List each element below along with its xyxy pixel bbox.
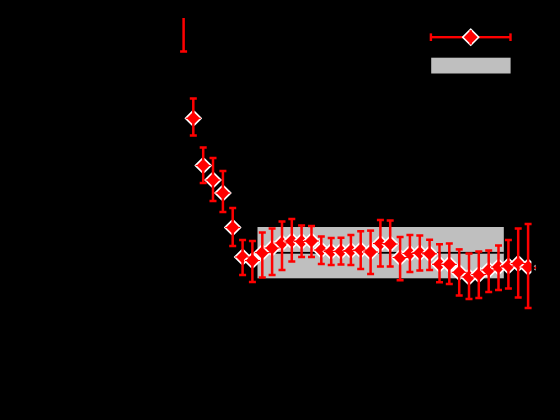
xerr segments	[186, 118, 536, 277]
errorbar t=11	[288, 219, 295, 262]
marker t=26	[431, 256, 448, 273]
errorbar t=10	[279, 222, 286, 271]
errorbar t=19	[367, 231, 374, 274]
errorbar t=31	[485, 251, 492, 293]
errorbar t=28	[456, 249, 463, 295]
marker t=32	[490, 259, 507, 276]
errorbar t=16	[338, 238, 345, 265]
errorbar t=9	[269, 229, 276, 276]
errorbar t=1	[190, 99, 197, 136]
marker t=34	[510, 255, 527, 272]
marker t=18	[352, 242, 369, 259]
errorbar series	[180, 18, 531, 308]
marker t=2	[195, 157, 212, 174]
marker t=16	[333, 243, 350, 260]
errorbar t=20	[377, 220, 384, 267]
errorbar t=22	[397, 237, 404, 280]
legend band swatch	[431, 58, 510, 74]
legend errorbar sample	[431, 33, 511, 41]
errorbar t=18	[357, 231, 364, 269]
errorbar t=8	[259, 233, 266, 278]
marker t=9	[264, 240, 281, 257]
marker t=14	[313, 242, 330, 259]
errorbar t=17	[347, 235, 354, 265]
errorbar t=32	[495, 246, 502, 291]
marker t=4	[215, 185, 232, 202]
legend yerr sample	[470, 30, 472, 44]
marker t=5	[224, 219, 241, 236]
marker t=19	[362, 244, 379, 261]
errorbar t=2	[200, 148, 207, 184]
fit line	[258, 252, 504, 254]
marker t=21	[382, 236, 399, 253]
errorbar t=3	[210, 158, 217, 201]
errorbar t=15	[328, 238, 335, 265]
marker t=20	[372, 235, 389, 252]
errorbar t=21	[387, 221, 394, 267]
marker t=30	[471, 266, 488, 283]
marker t=1	[185, 110, 202, 127]
errorbar t=4	[219, 171, 226, 212]
marker t=25	[421, 246, 438, 263]
clipped marker t=36	[534, 265, 536, 267]
errorbar t=7	[249, 241, 256, 282]
marker t=13	[303, 233, 320, 250]
errorbar t=13	[308, 226, 315, 257]
errorbar t=29	[466, 254, 473, 300]
errorbar t=0	[180, 18, 187, 52]
errorbar t=25	[426, 240, 433, 270]
marker t=23	[402, 245, 419, 262]
errorbar t=14	[318, 237, 325, 265]
errorbar t=24	[416, 236, 423, 271]
marker t=29	[461, 269, 478, 286]
errorbar t=27	[446, 244, 453, 285]
errorbar t=33	[505, 240, 512, 289]
marker t=15	[323, 243, 340, 260]
errorbar t=30	[475, 252, 482, 299]
markers	[185, 110, 536, 285]
errorbar t=34	[515, 229, 522, 298]
errorbar t=35	[525, 224, 532, 308]
legend marker	[462, 29, 479, 46]
marker t=24	[412, 245, 429, 262]
marker t=35 (clipped at axes edge)	[520, 259, 537, 276]
marker t=17	[343, 242, 360, 259]
fit band	[258, 227, 504, 278]
errorbar t=23	[406, 235, 413, 272]
marker t=22	[392, 249, 409, 266]
marker t=11	[284, 233, 301, 250]
errorbar t=5	[229, 208, 236, 246]
errorbar t=26	[436, 244, 443, 282]
marker t=3	[205, 172, 222, 189]
marker t=31	[480, 262, 497, 279]
marker t=33	[500, 258, 517, 275]
marker t=6	[234, 249, 251, 266]
marker t=7	[244, 252, 261, 269]
marker t=10	[274, 235, 291, 252]
marker t=27	[441, 256, 458, 273]
marker t=12	[293, 233, 310, 250]
marker t=8	[254, 244, 271, 261]
marker t=28	[451, 264, 468, 281]
errorbar t=12	[298, 226, 305, 258]
errorbar t=6	[239, 240, 246, 275]
